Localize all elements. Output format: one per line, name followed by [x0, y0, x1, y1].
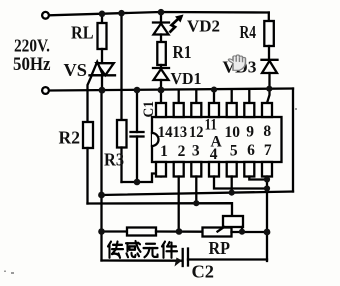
svg-text:R1: R1	[173, 42, 192, 62]
svg-text:R4: R4	[240, 22, 257, 42]
svg-text:C2: C2	[192, 262, 215, 282]
svg-text:14: 14	[158, 124, 173, 141]
svg-text:6: 6	[247, 142, 255, 159]
svg-text:VD2: VD2	[187, 17, 220, 36]
svg-text:11: 11	[204, 116, 217, 133]
svg-text:RL: RL	[71, 23, 94, 43]
svg-text:1: 1	[160, 143, 168, 160]
svg-text:50Hz: 50Hz	[13, 55, 51, 75]
svg-text:5: 5	[230, 142, 238, 159]
svg-text:VD1: VD1	[171, 69, 202, 88]
svg-text:9: 9	[246, 123, 254, 140]
svg-text:4: 4	[210, 146, 218, 163]
svg-text:RP: RP	[209, 238, 231, 258]
svg-text:R2: R2	[59, 128, 81, 148]
svg-text:R3: R3	[104, 150, 124, 170]
svg-text:8: 8	[263, 123, 271, 140]
svg-text:3: 3	[192, 142, 200, 159]
svg-text:VS: VS	[64, 60, 88, 80]
svg-text:13: 13	[173, 124, 188, 141]
svg-text:12: 12	[189, 124, 204, 141]
svg-text:10: 10	[225, 124, 241, 141]
svg-text:220V.: 220V.	[14, 36, 50, 56]
svg-text:C1: C1	[141, 101, 157, 118]
svg-text:7: 7	[264, 142, 272, 159]
svg-text:2: 2	[178, 143, 186, 160]
